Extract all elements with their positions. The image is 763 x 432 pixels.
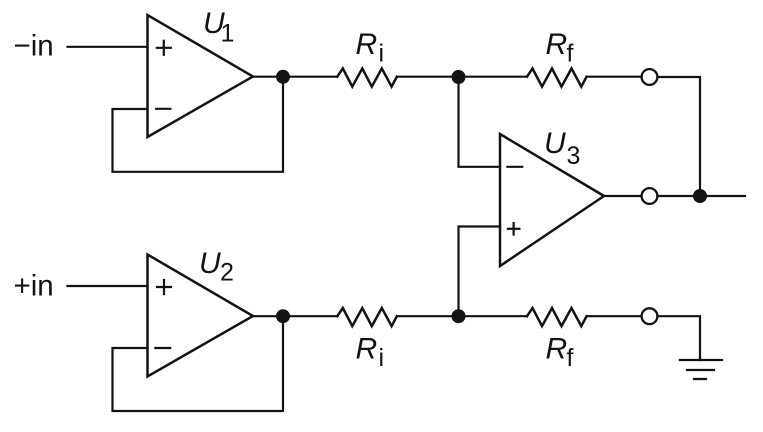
node A: U1 output junction dot <box>276 70 290 84</box>
wire: U1 output to resistor Ri top <box>253 76 337 78</box>
svg-text:+in: +in <box>14 270 54 303</box>
svg-text:i: i <box>379 344 385 372</box>
wire: U2 feedback loop output to - input <box>113 316 284 411</box>
terminal: open circle (U3 output) <box>642 188 658 204</box>
resistor Ri (bottom) <box>337 308 397 326</box>
wire: Rf bottom to terminal circle <box>587 315 642 317</box>
op-amp U2 <box>148 255 254 377</box>
terminal: open circle (top) <box>642 69 658 85</box>
op-amp U3 <box>500 134 604 266</box>
svg-text:−in: −in <box>14 30 54 63</box>
svg-text:f: f <box>567 40 574 68</box>
resistor Rf (top) <box>527 69 587 87</box>
wire: U3 output terminal to right edge <box>657 195 745 197</box>
label Ri (top) <box>356 28 385 68</box>
wire: node D up to U3 + input <box>459 227 501 317</box>
node E: U2 output junction dot <box>276 309 290 323</box>
label Ri (bottom) <box>356 333 385 373</box>
wire: Rf top to terminal circle <box>587 76 642 78</box>
wire: Ri bottom to node D <box>397 315 459 317</box>
resistor Ri (top) <box>337 69 397 87</box>
terminal: open circle (bottom) <box>642 308 658 324</box>
node B: top junction dot <box>452 70 466 84</box>
wire: node B to resistor Rf top <box>459 76 528 78</box>
wire: bottom terminal right and down to ground <box>657 316 700 360</box>
node D: bottom junction dot <box>452 309 466 323</box>
wire: U3 output to terminal circle <box>604 195 642 197</box>
svg-text:R: R <box>546 333 568 366</box>
wire: U2 output to resistor Ri bottom <box>253 315 337 317</box>
node C: output junction dot <box>693 189 707 203</box>
svg-text:R: R <box>546 28 568 61</box>
svg-text:f: f <box>567 344 574 372</box>
label U3 <box>544 127 580 170</box>
wire: node D to resistor Rf bottom <box>459 315 528 317</box>
op-amp U1 <box>148 15 254 137</box>
svg-text:2: 2 <box>220 259 234 287</box>
svg-text:3: 3 <box>567 142 581 170</box>
svg-text:U: U <box>199 247 221 280</box>
svg-text:i: i <box>379 40 385 68</box>
svg-text:U: U <box>544 127 566 160</box>
wire: Ri top to node B <box>397 76 459 78</box>
svg-text:1: 1 <box>221 20 235 48</box>
wire: -in input to U1 + input <box>68 46 148 48</box>
svg-text:R: R <box>356 333 378 366</box>
wire: node B down to U3 - input <box>459 77 501 167</box>
resistor Rf (bottom) <box>527 308 587 326</box>
svg-text:R: R <box>356 28 378 61</box>
label U2 <box>199 247 234 287</box>
wire: top terminal right and down to node C <box>657 77 700 189</box>
wire: U1 feedback loop output to - input <box>113 77 284 172</box>
ground <box>680 360 722 379</box>
wire: +in input to U2 + input <box>68 285 148 287</box>
label Rf (top) <box>546 28 574 68</box>
label Rf (bottom) <box>546 333 574 373</box>
label U1 <box>203 7 234 48</box>
